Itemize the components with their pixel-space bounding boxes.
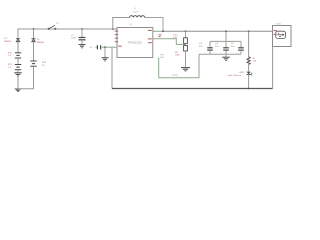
wire C3 from top bus: [209, 41, 211, 47]
resistor R2: [184, 45, 188, 67]
label J1: [276, 23, 283, 25]
wire caps bus to ground: [225, 54, 227, 57]
node LED branch junction: [248, 30, 250, 32]
wire VAUX pin net: [102, 46, 117, 48]
svg-text:LED1: LED1: [239, 72, 245, 74]
wire inductor loop left vertical: [113, 18, 130, 30]
wire inductor loop right vertical to SW: [145, 18, 163, 32]
wire AGND long vertical to bottom bus: [111, 47, 113, 88]
node SW inductor junction: [162, 30, 164, 32]
node VIN junction at inductor loop: [112, 28, 114, 30]
capacitor C2: [96, 45, 101, 49]
wire output caps bottom bus: [199, 53, 241, 55]
svg-text:MBR05: MBR05: [37, 42, 45, 44]
wire top input rail: [18, 29, 117, 41]
node VIN junction at C1: [81, 28, 83, 30]
label net VOUT: [173, 33, 178, 39]
node divider top junction: [185, 30, 187, 32]
label BT2: [8, 64, 13, 69]
label U1 designator: [130, 24, 134, 26]
op-amp U1 TPS61232 box: [117, 28, 153, 58]
wire LED branch from rail: [248, 31, 250, 57]
svg-text:10uF: 10uF: [71, 38, 77, 40]
node cap bank junction on rail: [225, 30, 227, 32]
wire PGND route from U1 bottom: [159, 54, 199, 78]
label C1: [71, 35, 77, 40]
label D2: [37, 39, 45, 44]
LED D3: [247, 72, 253, 76]
wire VAUX junction to ground: [104, 47, 106, 57]
wire D1 to BT1: [17, 42, 19, 53]
label C4: [215, 43, 219, 48]
label PGND pin: [161, 54, 165, 58]
ground at bottom of column 1: [15, 89, 21, 92]
wire LED to bottom bus: [248, 75, 250, 89]
label D1: [4, 38, 12, 43]
battery BT3: [30, 61, 36, 66]
wire VOUT rail: [153, 30, 273, 32]
label LED: [228, 72, 245, 77]
label BT1: [8, 52, 13, 57]
wire column 1 to bottom node: [17, 76, 19, 88]
pin labels left of U1: [115, 31, 122, 47]
wire connector ground drop: [272, 47, 274, 89]
wire cap bank top bus: [210, 40, 241, 42]
wire FB pin: [153, 39, 186, 45]
diode D2: [32, 36, 36, 42]
battery BT2: [15, 65, 21, 70]
resistor R3 zigzag: [247, 57, 250, 65]
wire D2 to BT3: [33, 42, 35, 61]
label BT3: [42, 62, 47, 67]
wire C4 from top bus: [225, 41, 227, 47]
node VAUX junction: [104, 46, 106, 48]
capacitor C4: [223, 48, 229, 54]
resistor R1: [184, 31, 188, 45]
ground at C1: [79, 45, 86, 48]
label R3: [253, 58, 257, 63]
connector J1 box: [273, 26, 292, 47]
label C3: [199, 43, 203, 48]
label C5: [231, 43, 235, 48]
wire BT2 to mid ground: [17, 70, 19, 73]
wire BT3 down and to ground of column 1: [18, 66, 34, 89]
wire C1 branch from rail: [81, 29, 83, 37]
diode D1: [16, 36, 20, 42]
svg-text:MBR05: MBR05: [4, 41, 12, 43]
ground mid at battery column 1: [14, 73, 22, 76]
wire bottom bus: [112, 88, 273, 90]
label L1: [133, 8, 139, 14]
label R2: [175, 52, 181, 57]
label pin number SW: [159, 34, 162, 37]
svg-text:1.0uH: 1.0uH: [133, 12, 139, 14]
svg-text:ND: ND: [161, 57, 165, 59]
node VIN junction at battery branch 2: [33, 28, 35, 30]
pin labels J1: [274, 30, 277, 35]
switch S1: [48, 23, 59, 30]
USB icon inside J1: [276, 31, 286, 38]
wire BT1 to BT2: [17, 58, 19, 64]
wire R3 to LED: [248, 65, 250, 72]
pin labels right inside U1: [148, 30, 152, 43]
svg-text:GND: GND: [172, 73, 178, 77]
svg-text:TPS61232: TPS61232: [128, 41, 143, 45]
inductor L1: [130, 16, 145, 18]
wire C1 to ground: [81, 40, 83, 44]
svg-text:Red 4.65mcd: Red 4.65mcd: [228, 75, 242, 77]
battery BT1: [15, 53, 21, 58]
ground at output caps: [222, 57, 230, 60]
capacitor C5: [238, 48, 244, 54]
label net GND: [172, 73, 178, 77]
capacitor C1: [79, 38, 86, 40]
wire cap bank riser from rail: [225, 31, 227, 41]
node LED bus junction: [248, 88, 250, 90]
wire branch 2 from rail: [33, 29, 35, 36]
ground at FB divider: [181, 68, 190, 71]
svg-text:Vout: Vout: [173, 33, 178, 36]
capacitor C3: [207, 48, 213, 54]
ground at C2: [102, 58, 109, 61]
wire C5 from top bus: [240, 41, 242, 47]
svg-text:CON1: CON1: [276, 23, 283, 25]
label C2: [90, 47, 94, 49]
